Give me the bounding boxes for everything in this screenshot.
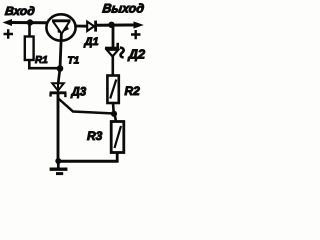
wire node to R3 [115,114,117,122]
input arrow [3,19,13,26]
node ground junction [55,158,61,164]
svg-text:R1: R1 [35,55,48,66]
wire Д2 to R2 [112,56,115,76]
plus input terminal [4,29,14,38]
wire top-left input to transistor [9,21,47,24]
svg-text:Д2: Д2 [128,47,146,62]
plus output terminal [131,30,141,39]
node R2 R3 junction [111,111,117,117]
output arrow [134,21,144,28]
ground [50,161,68,174]
slash inside R2 [110,80,116,99]
node base junction [57,65,64,72]
svg-text:T1: T1 [68,56,80,67]
svg-text:Вход: Вход [4,4,35,18]
resistor R3 [111,122,124,153]
resistor R2 [107,76,118,104]
slash inside R3 [115,126,122,148]
resistor R1 [25,37,34,61]
wire R1 bottom elbow to base node [29,60,60,68]
wire bottom return [56,160,119,163]
wire output node to Д2 [112,25,115,48]
wire Д3 to bottom return [57,94,60,161]
wire diagonal from Д3 to node [58,99,111,114]
svg-text:Д1: Д1 [84,36,99,48]
svg-text:R2: R2 [125,84,141,98]
node junction R1 top [27,19,33,25]
svg-text:Выход: Выход [102,2,146,16]
wire R1 top lead [28,23,31,37]
wire R3 bottom lead [116,153,119,163]
wire R2 bottom to node [112,103,115,114]
svg-text:Д3: Д3 [71,87,87,99]
diode Д1 [87,21,95,32]
wire transistor to diode Д1 [76,25,88,28]
node output junction [108,22,114,28]
transistor T1 [46,14,75,68]
wire base node to Д3 [58,69,60,84]
diode Д2 stabilitron [105,43,124,58]
diode Д3 stabilitron [50,83,67,97]
wire Д1 to output arrow [97,24,135,27]
svg-text:R3: R3 [87,129,103,143]
